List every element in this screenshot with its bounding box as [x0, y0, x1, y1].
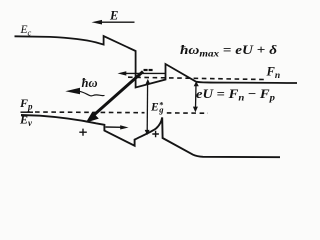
svg-text:g: g: [158, 104, 164, 114]
conduction band Ec curve: [15, 36, 298, 88]
quasi-Fermi level Fp dashed: [21, 111, 34, 113]
photon transition bold arrow hw: [91, 72, 144, 119]
photon wavy arrow: [79, 91, 105, 96]
arrow E field: [99, 21, 135, 23]
svg-text:Fn: Fn: [266, 65, 281, 82]
svg-text:E: E: [109, 8, 118, 22]
svg-text:Fp: Fp: [19, 96, 33, 112]
eU double arrow: [195, 84, 198, 109]
svg-text:ħωmax = eU + δ: ħωmax = eU + δ: [180, 42, 277, 60]
quasi-Fermi level Fn dashed: [128, 77, 264, 79]
valence band Ev curve: [21, 115, 280, 157]
svg-text:eU = Fn − Fp: eU = Fn − Fp: [196, 86, 275, 104]
hole current arrow (right): [106, 126, 123, 128]
Eg* double arrow: [146, 83, 148, 132]
electron current arrow (left): [124, 72, 166, 74]
electron minus signs: [144, 69, 148, 71]
svg-text:E: E: [150, 101, 159, 113]
plus sign left: [79, 129, 87, 136]
plus sign right: [152, 131, 159, 137]
svg-text:Ec: Ec: [20, 24, 32, 37]
svg-text:ħω: ħω: [82, 76, 98, 90]
